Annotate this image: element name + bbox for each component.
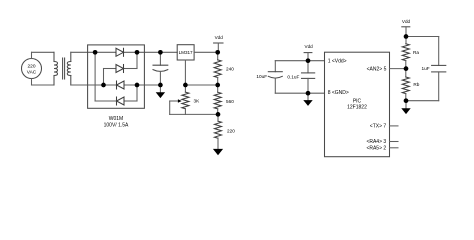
svg-text:W01M: W01M bbox=[109, 116, 123, 122]
svg-text:Vdd: Vdd bbox=[215, 35, 224, 40]
svg-text:PIC: PIC bbox=[353, 98, 362, 104]
svg-text:Vdd: Vdd bbox=[402, 19, 411, 24]
svg-text:8 <GND>: 8 <GND> bbox=[328, 90, 349, 96]
svg-text:LM317: LM317 bbox=[179, 50, 193, 55]
svg-text:Rb: Rb bbox=[413, 82, 419, 87]
svg-text:220: 220 bbox=[27, 64, 35, 70]
svg-text:0.1uF: 0.1uF bbox=[287, 75, 299, 80]
svg-text:Ra: Ra bbox=[413, 50, 419, 55]
svg-text:220: 220 bbox=[227, 128, 235, 133]
svg-text:<AN2> 5: <AN2> 5 bbox=[367, 67, 387, 73]
svg-text:Vdd: Vdd bbox=[305, 44, 314, 49]
svg-text:1uF: 1uF bbox=[422, 66, 430, 71]
svg-text:560: 560 bbox=[226, 99, 234, 104]
svg-text:<RA5> 2: <RA5> 2 bbox=[366, 145, 386, 151]
svg-text:1 <Vdd>: 1 <Vdd> bbox=[328, 58, 347, 64]
svg-text:<RA4> 3: <RA4> 3 bbox=[366, 139, 386, 145]
svg-text:12F1822: 12F1822 bbox=[347, 105, 367, 111]
svg-text:240: 240 bbox=[226, 66, 234, 71]
svg-text:3K: 3K bbox=[194, 98, 201, 103]
svg-text:VAC: VAC bbox=[27, 70, 37, 76]
svg-text:100V/ 1.5A: 100V/ 1.5A bbox=[104, 122, 129, 128]
svg-text:10uF: 10uF bbox=[256, 74, 267, 79]
svg-text:<TX> 7: <TX> 7 bbox=[370, 124, 387, 130]
